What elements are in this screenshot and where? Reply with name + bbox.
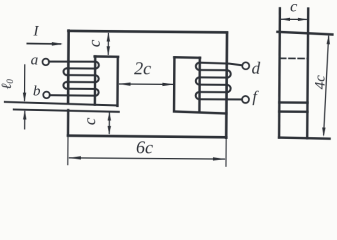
right coil inner bump 1 [196,63,200,70]
arrowhead top c up [107,32,110,41]
terminal f [242,96,249,103]
side view gap upper line [279,101,307,104]
arrowhead 6c right [213,157,226,160]
terminal b [43,92,50,99]
svg-text:b: b [33,83,41,99]
core outer left edge [67,31,70,103]
left coil turn line 6 from terminal b [50,94,96,97]
dimension line 2c [120,83,174,85]
bottom bar left edge [67,110,70,135]
side view right edge [307,9,308,138]
core top yoke edge [68,31,227,32]
current arrow I [27,42,60,44]
side view hidden edge dashed [280,57,308,59]
right coil outer bump 1 [227,70,231,77]
right coil turn line 6 to terminal f [199,98,242,100]
dimension line l0 lower [24,111,26,128]
side view gap lower line [279,110,307,113]
arrowhead side c left [280,18,290,21]
bottom bar bottom edge [68,136,226,138]
arrowhead 6c left [68,156,81,159]
arrowhead top c down [107,46,110,55]
left coil turn line 4 [67,81,95,83]
arrowhead l0 up [23,110,26,119]
dimension line 4c [324,36,329,135]
svg-text:a: a [31,52,39,68]
left coil turn line 2 [67,67,95,69]
arrowhead bottom c up [108,112,111,121]
right coil turn line 4 [199,84,227,86]
left coil inner bump 3 [95,89,98,96]
left coil outer bump 2 [63,82,66,89]
arrowhead bottom c down [108,126,111,135]
left window right edge [116,57,119,106]
svg-text:d: d [252,59,261,78]
svg-text:2c: 2c [134,58,151,78]
right coil turn line 1 to terminal d [200,63,243,66]
arrowhead l0 down [23,93,26,102]
dimension line l0 upper [23,65,25,100]
right coil inner bump 3 [196,92,200,99]
6c extension line left [67,135,69,164]
arrowhead side c right [298,18,308,21]
svg-text:4c: 4c [312,75,328,90]
svg-text:6c: 6c [136,137,153,157]
6c extension line right [225,138,227,166]
right window left edge [173,57,176,111]
dimension line bottom c [108,113,110,133]
left coil outer bump 1 [63,68,66,75]
svg-text:f: f [252,89,259,106]
right window right edge [198,58,201,112]
dimension line top c [107,34,109,55]
arrowhead 4c up [327,35,330,45]
left coil turn line 3 [67,74,95,76]
side view left edge [279,8,280,137]
terminal d [242,62,249,69]
right coil turn line 5 [199,91,227,93]
arrowhead current I [52,42,63,46]
terminal a [42,59,49,66]
left window top edge [95,55,119,58]
arrowhead 4c down [322,128,325,137]
left coil turn line 5 [67,88,95,90]
left coil inner bump 1 [95,62,98,69]
svg-text:ℓ0: ℓ0 [0,79,15,90]
air gap lower line L2 (bar top left, with extension) [14,109,119,111]
right window bottom edge and bar top right part [174,112,226,114]
right coil turn line 3 [199,76,227,78]
side view top edge with 4c extension [277,32,332,35]
right window top edge [174,56,200,59]
right coil inner bump 2 [196,77,200,84]
core outer right edge [225,33,228,138]
dimension line side c [282,18,307,20]
arrowhead 2c right [162,83,174,86]
left coil turn line 1 from terminal a [49,60,96,63]
left window left edge [94,56,97,104]
side view bottom edge with 4c extension [279,138,330,139]
svg-text:c: c [80,117,99,125]
arrowhead 2c left [119,82,131,85]
svg-text:c: c [290,0,297,16]
svg-text:I: I [32,23,39,39]
left coil inner bump 2 [95,75,98,82]
right coil outer bump 2 [227,85,231,92]
right coil turn line 2 [200,69,228,71]
svg-text:c: c [85,39,104,47]
dimension line 6c [69,158,224,159]
air gap upper line L1 (core bottom left, with extension) [5,102,118,106]
